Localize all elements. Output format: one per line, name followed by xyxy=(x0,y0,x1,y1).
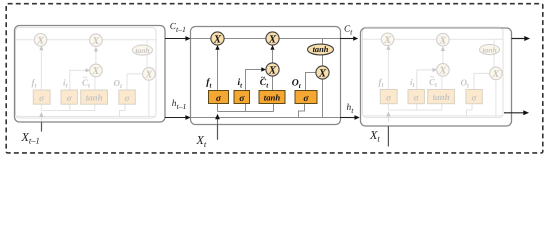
arrow output h right xyxy=(504,112,524,114)
svg-text:ht: ht xyxy=(347,103,355,115)
svg-text:Ct–1: Ct–1 xyxy=(170,21,186,34)
outer dashed border xyxy=(6,4,543,153)
arrow output C right xyxy=(512,38,525,40)
svg-text:Ct: Ct xyxy=(344,24,353,37)
central cell xyxy=(191,27,341,125)
wire X_t stub central xyxy=(217,125,219,140)
arrow C_{t-1} into central cell xyxy=(165,38,187,40)
wire X_t stub right xyxy=(387,126,389,147)
arrow h_{t-1} into central cell xyxy=(165,117,187,119)
svg-text:Xt–1: Xt–1 xyxy=(21,130,40,146)
wire X_{t-1} stub xyxy=(41,122,43,132)
left cell outer box xyxy=(15,26,166,123)
arrow C_t to right cell xyxy=(340,38,354,40)
arrow h_t to right cell xyxy=(340,117,356,119)
right cell faded content xyxy=(363,27,504,122)
right cell outer box xyxy=(361,28,512,126)
svg-text:ht–1: ht–1 xyxy=(172,99,187,111)
svg-text:Xt: Xt xyxy=(369,128,380,144)
svg-text:Xt: Xt xyxy=(196,133,207,149)
left cell faded content xyxy=(16,28,157,123)
